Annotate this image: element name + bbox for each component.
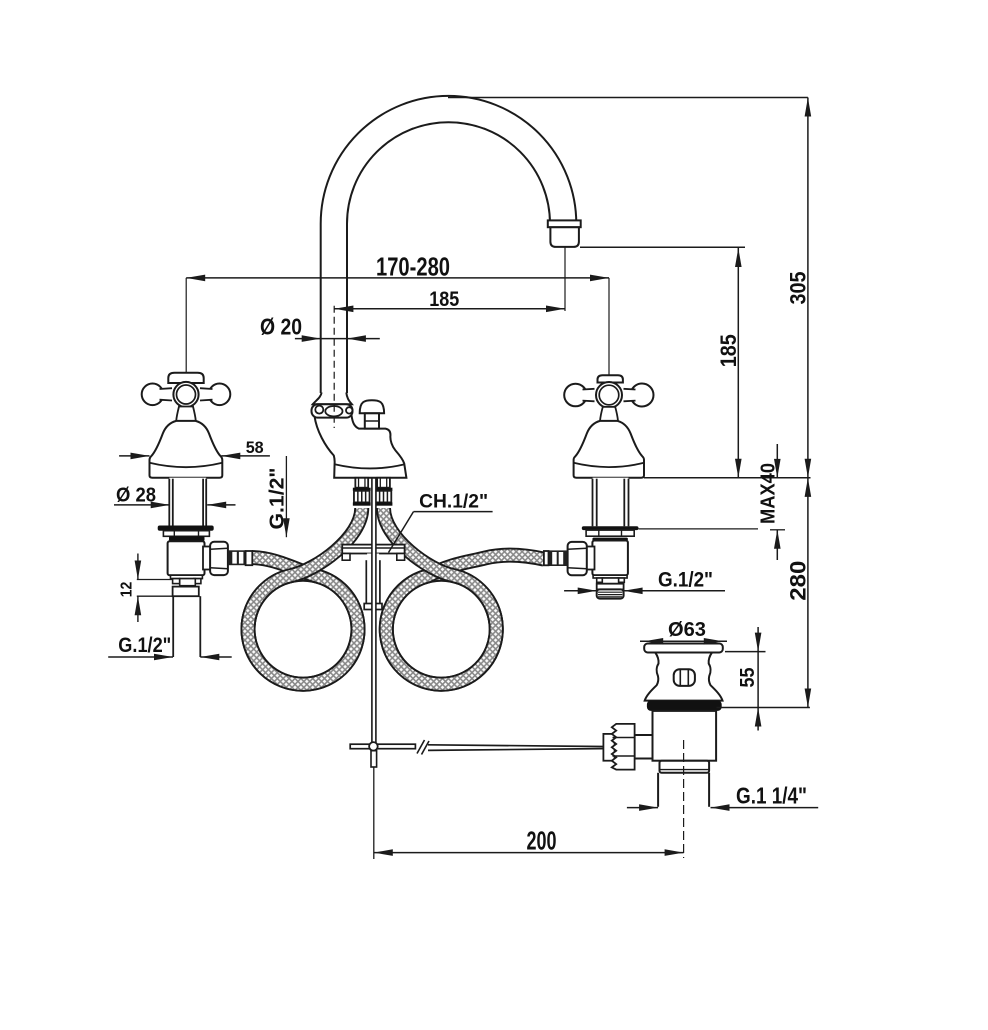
svg-text:G.1 1/4": G.1 1/4" bbox=[736, 783, 807, 809]
svg-text:G.1/2": G.1/2" bbox=[658, 568, 713, 591]
svg-text:Ø 28: Ø 28 bbox=[116, 484, 156, 506]
svg-text:185: 185 bbox=[429, 288, 459, 311]
svg-text:185: 185 bbox=[716, 334, 741, 367]
svg-text:280: 280 bbox=[786, 561, 811, 601]
svg-text:58: 58 bbox=[246, 438, 264, 457]
svg-text:55: 55 bbox=[737, 668, 759, 688]
svg-text:CH.1/2": CH.1/2" bbox=[419, 491, 488, 512]
svg-text:200: 200 bbox=[527, 826, 557, 856]
svg-text:MAX40: MAX40 bbox=[758, 463, 780, 524]
svg-text:305: 305 bbox=[786, 272, 811, 305]
svg-text:G.1/2": G.1/2" bbox=[118, 634, 171, 657]
svg-text:170-280: 170-280 bbox=[376, 251, 450, 281]
svg-text:Ø 20: Ø 20 bbox=[260, 314, 302, 340]
svg-text:Ø63: Ø63 bbox=[668, 619, 706, 641]
svg-text:12: 12 bbox=[119, 582, 136, 598]
svg-text:G.1/2": G.1/2" bbox=[267, 468, 289, 530]
